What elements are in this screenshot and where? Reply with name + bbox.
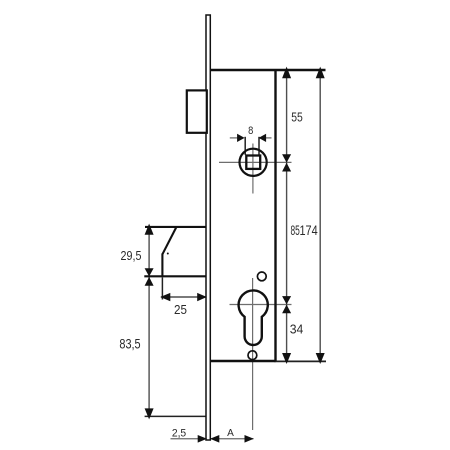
- svg-text:29,5: 29,5: [121, 249, 142, 263]
- svg-text:8: 8: [248, 125, 253, 137]
- svg-text:A: A: [227, 428, 234, 439]
- svg-text:25: 25: [174, 303, 187, 317]
- svg-text:83,5: 83,5: [119, 336, 140, 352]
- svg-text:55: 55: [291, 110, 303, 124]
- svg-text:174: 174: [299, 223, 317, 238]
- svg-text:34: 34: [290, 322, 304, 336]
- svg-text:85: 85: [290, 224, 299, 238]
- svg-text:2,5: 2,5: [172, 427, 186, 439]
